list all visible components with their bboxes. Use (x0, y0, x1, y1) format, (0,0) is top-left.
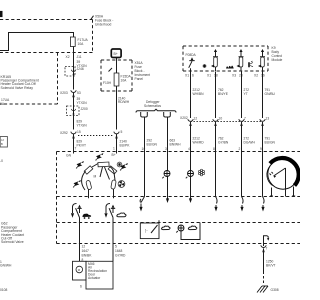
svg-text:2: 2 (239, 147, 241, 151)
svg-text:9: 9 (260, 147, 262, 151)
svg-text:B+: B+ (112, 153, 116, 157)
svg-text:[··: [·· (145, 229, 148, 233)
svg-text:X1: X1 (185, 74, 189, 78)
svg-text:GY/RD: GY/RD (115, 254, 126, 258)
svg-text:10A: 10A (78, 42, 85, 46)
svg-text:1: 1 (113, 147, 115, 151)
svg-text:F10H: F10H (103, 81, 112, 85)
svg-text:Panel: Panel (135, 77, 144, 81)
svg-text:GN: GN (66, 154, 72, 158)
svg-text:Schematics: Schematics (144, 104, 161, 108)
svg-text:5: 5 (121, 130, 123, 134)
svg-text:WH/BN: WH/BN (193, 92, 205, 96)
svg-text:BU/GN: BU/GN (265, 141, 276, 145)
svg-text:GY/BN: GY/BN (218, 141, 229, 145)
svg-text:-0: -0 (0, 159, 3, 163)
svg-text:X2: X2 (66, 55, 70, 59)
svg-text:7: 7 (266, 247, 268, 251)
svg-text:BU/PK: BU/PK (120, 144, 131, 148)
svg-text:8: 8 (213, 147, 215, 151)
svg-text:X202: X202 (180, 116, 188, 120)
svg-text:X3: X3 (232, 74, 236, 78)
svg-text:J200: J200 (81, 107, 88, 111)
svg-text:Actuator: Actuator (88, 276, 101, 280)
svg-text:PK/VT: PK/VT (77, 144, 87, 148)
svg-text:4: 4 (188, 147, 190, 151)
svg-text:X203: X203 (60, 91, 68, 95)
svg-text:7: 7 (75, 147, 77, 151)
svg-text:6: 6 (192, 74, 194, 78)
svg-text:F08DA: F08DA (186, 53, 197, 57)
svg-text:M: M (94, 175, 97, 179)
svg-text:RD/WH: RD/WH (118, 100, 130, 104)
svg-text:GN/WH: GN/WH (0, 264, 12, 268)
svg-text:BU/GN: BU/GN (147, 143, 158, 147)
svg-text:15: 15 (77, 130, 81, 134)
svg-text:1647: 1647 (82, 249, 90, 253)
svg-text:Underhood: Underhood (95, 23, 111, 27)
svg-text:Solenoid Valve: Solenoid Valve (1, 240, 24, 244)
svg-text:YT/GN: YT/GN (77, 101, 88, 105)
svg-text:10A: 10A (121, 79, 128, 83)
svg-text:YT: YT (244, 92, 248, 96)
svg-text:BN/WH: BN/WH (170, 143, 182, 147)
svg-text:BN/YE: BN/YE (218, 92, 229, 96)
svg-text:BK/VT: BK/VT (266, 264, 276, 268)
svg-text:Solenoid Valve Relay: Solenoid Valve Relay (1, 86, 34, 90)
svg-text:X1: X1 (207, 74, 211, 78)
svg-text:6: 6 (80, 285, 82, 289)
svg-text:12: 12 (194, 117, 198, 121)
svg-text:10: 10 (142, 147, 146, 151)
svg-text:G308: G308 (271, 288, 279, 292)
svg-text:13: 13 (266, 117, 270, 121)
svg-text:Module: Module (272, 58, 283, 62)
svg-text:10: 10 (219, 117, 223, 121)
svg-text:J246: J246 (77, 67, 84, 71)
svg-text:0108: 0108 (0, 288, 8, 292)
svg-text:23: 23 (239, 74, 243, 78)
svg-text:BN/BK: BN/BK (82, 254, 93, 258)
svg-text:B+: B+ (114, 52, 118, 56)
svg-text:X2: X2 (254, 74, 258, 78)
svg-text:3: 3 (165, 147, 167, 151)
svg-text:DG/WH: DG/WH (244, 141, 256, 145)
svg-text:WH/RD: WH/RD (193, 141, 205, 145)
svg-text:J11: J11 (77, 55, 82, 59)
svg-text:B: B (1, 142, 3, 146)
svg-text:GN/BU: GN/BU (265, 92, 276, 96)
svg-text:12: 12 (82, 245, 86, 249)
svg-text:5: 5 (115, 245, 117, 249)
svg-text:X292: X292 (60, 131, 68, 135)
svg-text:1648: 1648 (115, 249, 123, 253)
svg-text:53: 53 (77, 91, 81, 95)
svg-text:YT/GN: YT/GN (77, 124, 88, 128)
